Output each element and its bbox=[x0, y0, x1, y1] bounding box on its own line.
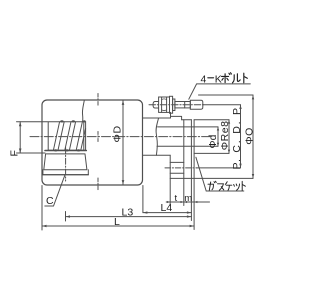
L4 extension (body corner down) bbox=[142, 186, 144, 213]
L dimension line bbox=[42, 225, 194, 227]
svg-text:L: L bbox=[114, 216, 120, 228]
flange left face bbox=[183, 120, 185, 206]
nut chamfer arcs bbox=[162, 99, 167, 111]
phiRe8 top extension bbox=[194, 119, 229, 121]
bore bottom line / phid extension bbox=[157, 145, 218, 147]
ke bbox=[225, 182, 232, 191]
svg-text:F: F bbox=[9, 150, 21, 156]
svg-text:4: 4 bbox=[201, 73, 207, 85]
hub top edge bbox=[143, 117, 171, 119]
center mark middle bbox=[97, 132, 99, 142]
flange bottom edge / phiO extension bbox=[170, 177, 253, 179]
gasket right edge bbox=[193, 120, 195, 230]
center mark top bbox=[97, 94, 99, 107]
P.C.D. dimension bracket bbox=[240, 105, 242, 168]
svg-text:ΦD: ΦD bbox=[111, 125, 123, 142]
dimension phiD line bbox=[122, 100, 124, 184]
gasket leader bbox=[196, 157, 244, 191]
main horizontal centerline bbox=[30, 136, 211, 138]
C leader bbox=[45, 175, 65, 206]
to bbox=[242, 181, 245, 190]
katakana ru bbox=[233, 74, 241, 83]
nut hex lines bbox=[162, 97, 167, 112]
bolt hole (lower, hidden) bbox=[170, 162, 184, 173]
flange lower left edge bbox=[169, 155, 171, 205]
ga bbox=[208, 181, 216, 190]
bolt hole centerline bbox=[165, 167, 197, 169]
svg-text:Φd: Φd bbox=[208, 134, 219, 148]
center mark bottom bbox=[97, 178, 99, 191]
phiO top extension bbox=[199, 94, 254, 96]
leader 4-K bolt bbox=[189, 84, 251, 99]
su bbox=[218, 184, 224, 190]
L4 dimension line bbox=[143, 212, 192, 214]
hose stem lower block bbox=[44, 154, 87, 170]
hub break line bbox=[156, 118, 159, 155]
nut bbox=[159, 97, 170, 112]
svg-text:L4: L4 bbox=[161, 202, 173, 214]
small tsu bbox=[234, 184, 240, 190]
spring washer bbox=[173, 99, 175, 111]
spring guard right inner edge bbox=[83, 122, 85, 151]
label gasket katakana GA-SU-KE-TSU-TO bbox=[208, 181, 245, 190]
L3 dimension line bbox=[66, 216, 192, 218]
svg-text:C: C bbox=[46, 195, 54, 207]
bolt tip bbox=[153, 102, 159, 109]
spring guard C (outer box) bbox=[48, 122, 85, 151]
coil wire nubs top bbox=[54, 120, 86, 151]
svg-text:ΦRe8: ΦRe8 bbox=[219, 121, 231, 151]
L3 left tick bbox=[65, 212, 67, 222]
svg-text:P. C. D. P: P. C. D. P bbox=[231, 106, 243, 169]
katakana to bbox=[244, 73, 248, 83]
flange right face bbox=[190, 120, 192, 221]
coil band 2 bbox=[65, 122, 76, 151]
stem vertical axis centerline bbox=[65, 148, 67, 182]
bore top line / phid extension bbox=[158, 126, 218, 128]
flange ring top edge bbox=[182, 119, 192, 121]
spring guard bottom thick edge bbox=[45, 150, 86, 152]
phiRe8 bottom extension bbox=[194, 152, 229, 154]
svg-text:L3: L3 bbox=[122, 207, 134, 219]
coil band 3 bbox=[76, 122, 85, 151]
svg-text:K: K bbox=[215, 73, 222, 85]
P.C.D. upper extension bbox=[204, 104, 241, 106]
washer bbox=[170, 96, 173, 113]
coil band 1 bbox=[53, 122, 64, 151]
wire body break line bbox=[82, 100, 84, 121]
L extension left bbox=[41, 186, 43, 231]
hose stem foot band bbox=[43, 170, 88, 175]
bolt head bbox=[190, 100, 203, 109]
bolt shank step bbox=[184, 102, 186, 108]
phid dimension bracket bbox=[217, 127, 219, 146]
svg-text:t: t bbox=[175, 193, 178, 204]
phiRe8 dimension bracket bbox=[228, 120, 230, 154]
svg-text:ΦO: ΦO bbox=[243, 127, 255, 145]
F dimension extension lines bbox=[17, 122, 48, 153]
label bolt katakana BO-RU-TO bbox=[222, 73, 248, 83]
svg-text:m: m bbox=[184, 193, 192, 204]
katakana bo bbox=[222, 73, 232, 83]
bolt axis centerline bbox=[149, 104, 204, 106]
coil wire nubs bottom bbox=[54, 149, 57, 151]
bolt shank bbox=[175, 102, 190, 108]
t m extension continuation is in face lines; t/m dimension line bbox=[166, 201, 209, 203]
P.C.D. lower extension bbox=[197, 167, 241, 169]
stub flare top bbox=[171, 112, 182, 119]
F dimension line bbox=[19, 122, 21, 153]
phiO dimension bracket bbox=[252, 95, 254, 178]
hub bottom edge bbox=[143, 154, 170, 156]
body (coupler housing) bbox=[42, 100, 143, 185]
